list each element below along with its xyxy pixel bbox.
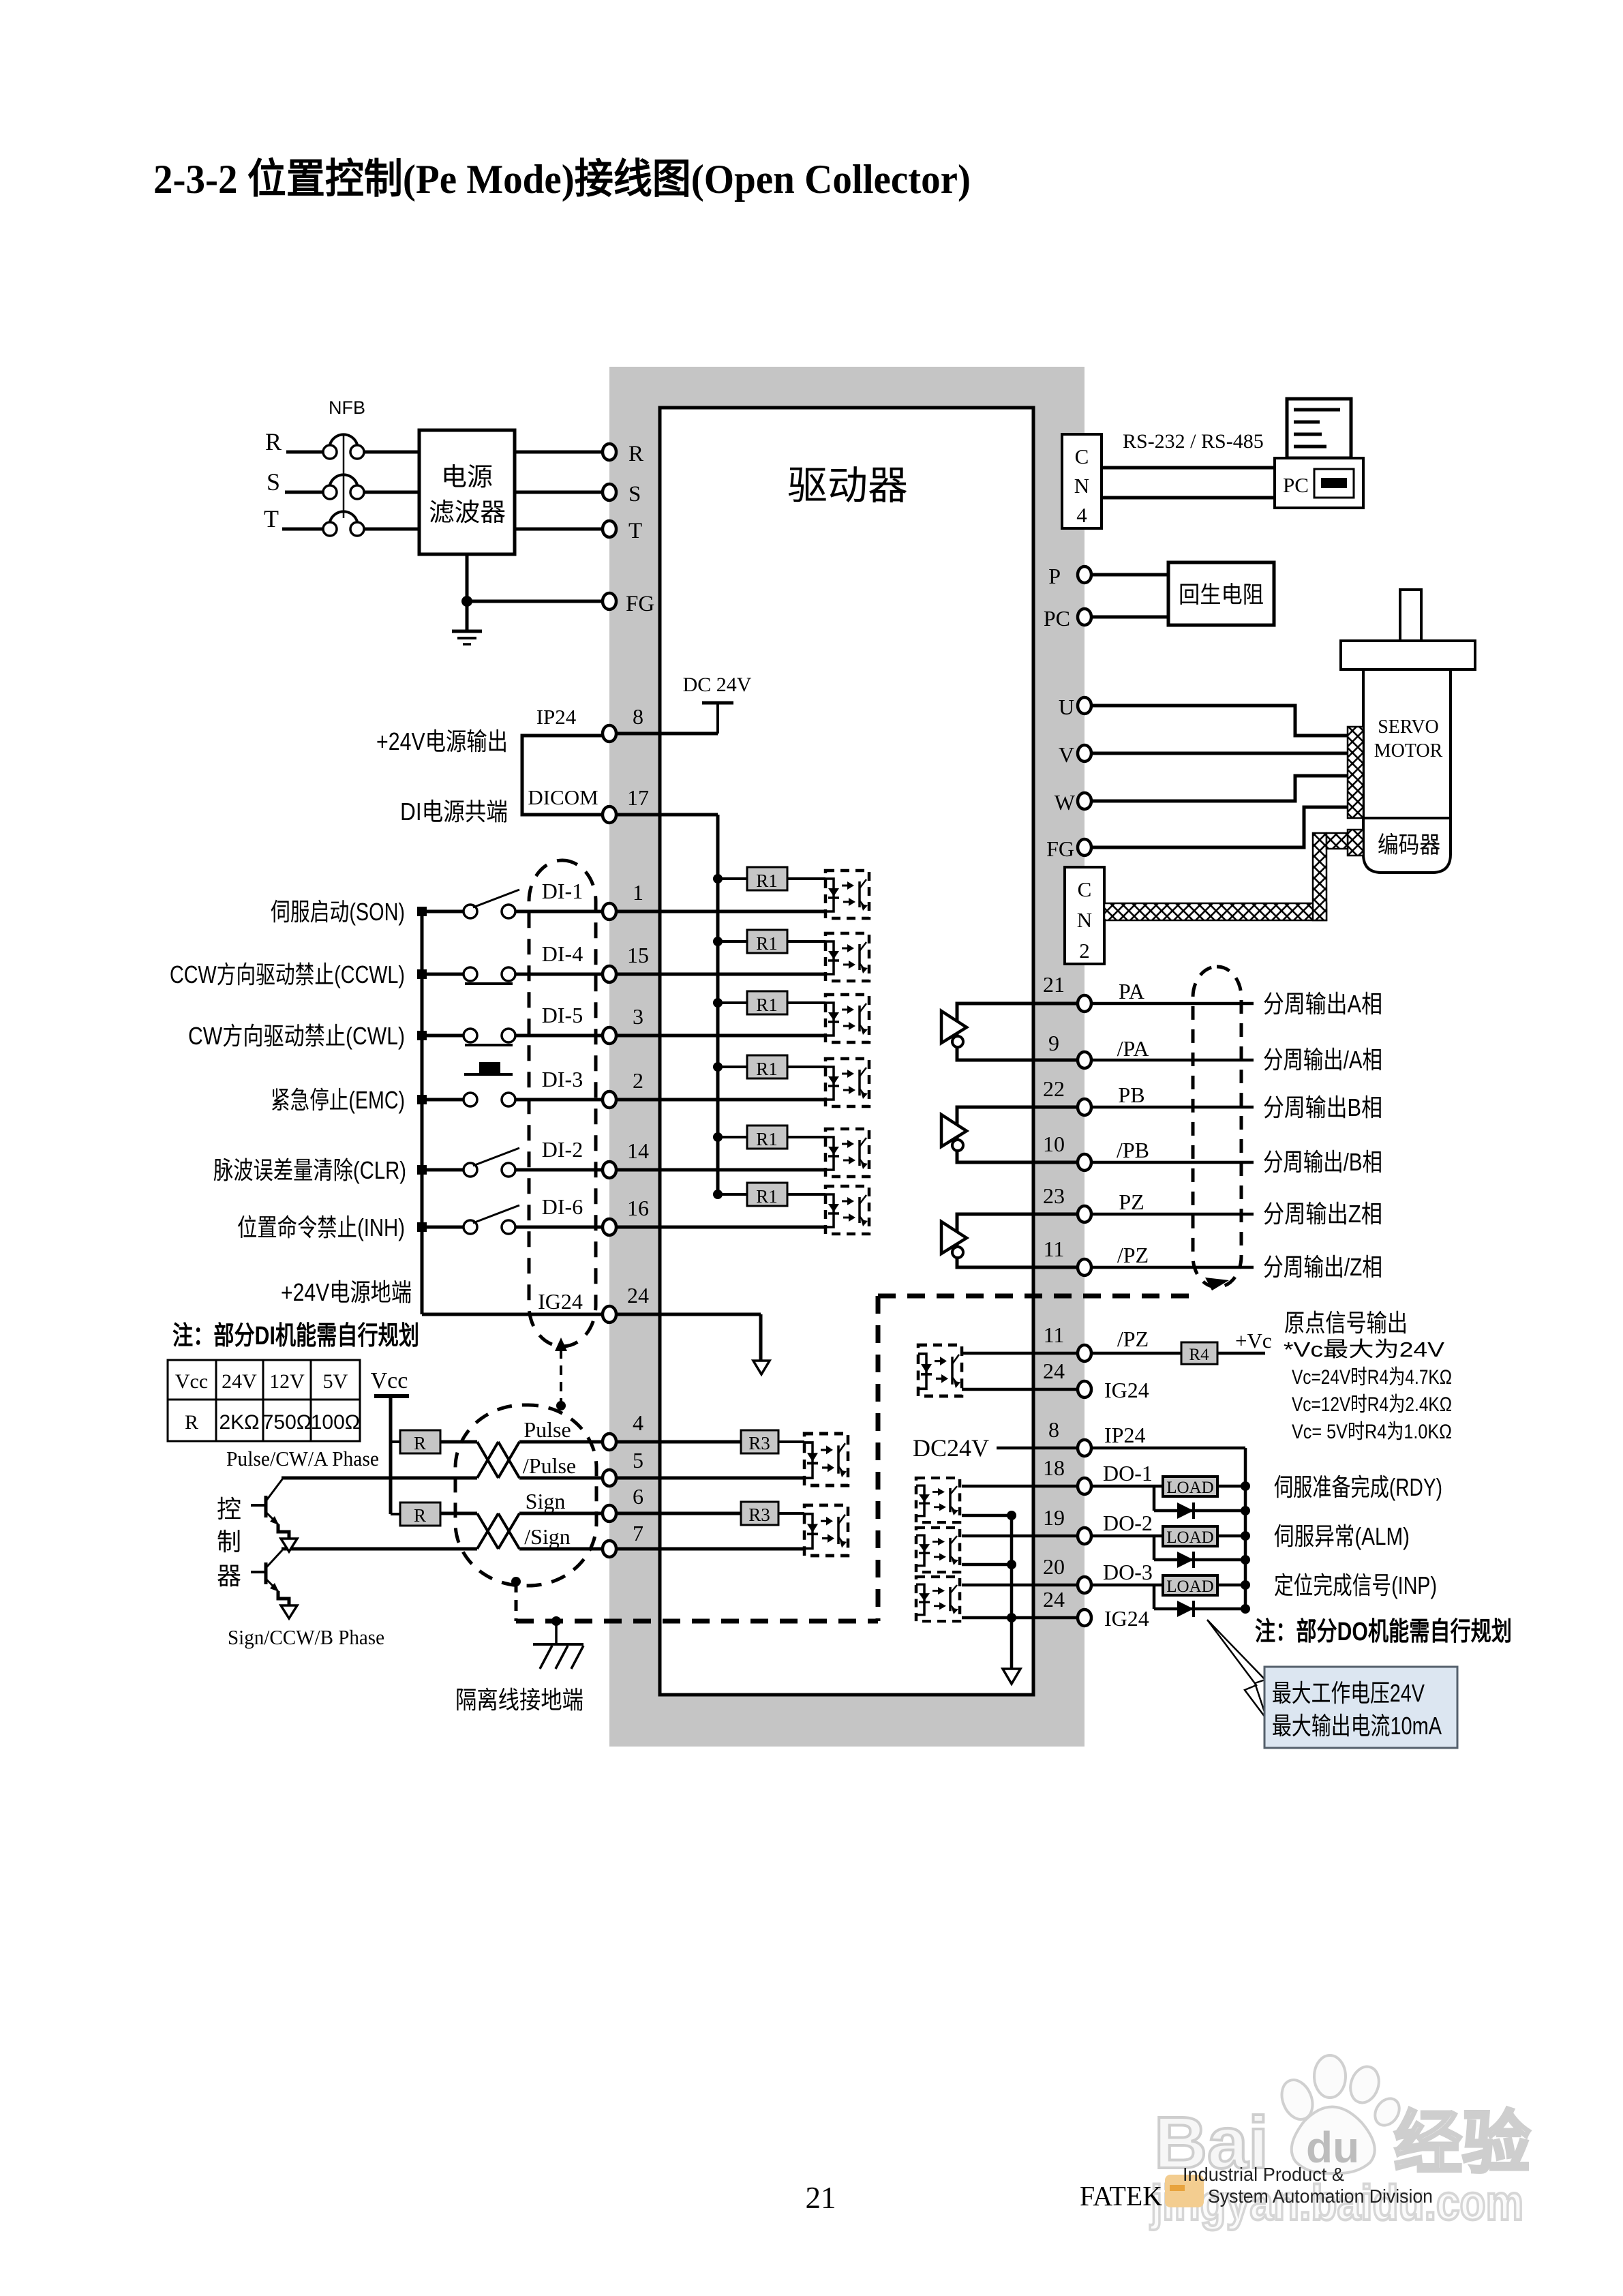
svg-text:750Ω: 750Ω [262,1411,312,1434]
svg-text:21: 21 [1043,972,1065,997]
terminal P [1078,567,1091,583]
svg-text:IG24: IG24 [1104,1378,1149,1402]
svg-text:+Vc: +Vc [1235,1329,1272,1353]
switch DI-5 (NC) [464,1029,477,1042]
svg-text:14: 14 [627,1138,649,1163]
optocoupler sign [804,1505,848,1556]
svg-text:注：部分DO机能需自行规划: 注：部分DO机能需自行规划 [1255,1618,1512,1646]
terminal 1 [603,903,616,920]
driver inner area [660,408,1033,1695]
svg-text:24: 24 [1043,1359,1065,1383]
svg-text:W: W [1055,790,1076,815]
R1 resistor row 2 [713,937,723,946]
svg-text:4: 4 [633,1410,643,1435]
svg-text:/PZ: /PZ [1117,1327,1149,1351]
servo motor body [1363,669,1451,818]
svg-text:Vcc: Vcc [371,1368,408,1393]
terminal 2 [603,1091,616,1108]
svg-text:11: 11 [1044,1237,1065,1261]
svg-text:+24V电源地端: +24V电源地端 [281,1278,412,1306]
shield arrow DI capsule to pulse capsule [560,1349,562,1404]
svg-text:注：部分DI机能需自行规划: 注：部分DI机能需自行规划 [172,1322,419,1350]
optocoupler DO-3 [916,1577,960,1621]
terminal 6 [603,1505,616,1522]
svg-text:伺服准备完成(RDY): 伺服准备完成(RDY) [1274,1473,1442,1501]
svg-text:T: T [628,519,642,543]
svg-text:MOTOR: MOTOR [1374,740,1443,761]
terminal 20 [1078,1577,1091,1593]
terminal PC [1078,609,1091,625]
connector CN2 [1065,867,1104,964]
shield dashed top run [878,1294,1198,1299]
wire R4 to +Vc [1217,1352,1265,1355]
svg-text:/Pulse: /Pulse [523,1453,576,1478]
svg-text:编码器: 编码器 [1378,832,1440,858]
wire CN4 to PC lower [1102,496,1275,500]
svg-text:16: 16 [627,1196,649,1220]
diode DO-1 [1153,1486,1156,1511]
svg-text:DI-3: DI-3 [542,1067,583,1091]
terminal 16 [603,1219,616,1235]
terminal 4 [603,1434,616,1450]
svg-text:R: R [265,428,282,455]
encoder output dashed capsule [1193,967,1241,1287]
svg-text:2: 2 [633,1068,643,1093]
svg-text:DC24V: DC24V [913,1434,989,1462]
line driver A [957,1003,1084,1060]
power filter box 电源滤波器 [419,430,515,554]
terminal FG [603,593,616,609]
svg-text:最大输出电流10mA: 最大输出电流10mA [1272,1712,1442,1740]
svg-text:V: V [1059,742,1074,767]
svg-text:DO-1: DO-1 [1103,1461,1153,1485]
switch DI-3 pushbutton [464,1093,477,1106]
connector CN4 [1062,434,1102,528]
svg-text:经验: 经验 [1394,2105,1530,2181]
svg-text:22: 22 [1043,1076,1065,1101]
svg-text:2KΩ: 2KΩ [219,1411,259,1434]
svg-text:C: C [1075,444,1089,468]
svg-text:100Ω: 100Ω [311,1411,360,1434]
svg-text:定位完成信号(INP): 定位完成信号(INP) [1274,1571,1437,1599]
junction to isolation ground [551,1616,561,1626]
opto DO-2 return [962,1563,1012,1567]
R1 resistor row 1 [713,874,723,883]
wire PZ out [1091,1213,1254,1216]
twisted pair Sign [477,1513,519,1549]
wire IG24 drop inside driver [759,1314,763,1361]
wire filter to S terminal [515,491,609,494]
PC monitor [1287,399,1351,458]
svg-text:Sign/CCW/B Phase: Sign/CCW/B Phase [228,1625,384,1649]
svg-text:PA: PA [1119,979,1144,1003]
svg-text:伺服异常(ALM): 伺服异常(ALM) [1274,1522,1410,1550]
R3 resistor (pulse) [741,1430,778,1453]
svg-text:4: 4 [1076,503,1087,527]
svg-text:NFB: NFB [329,397,365,418]
driver body (gray frame) [609,367,1084,1747]
svg-text:制: 制 [217,1528,241,1556]
svg-text:C: C [1078,877,1092,901]
svg-text:R: R [414,1433,426,1453]
wire CN4 to PC upper [1102,466,1275,470]
junction FG [461,596,472,607]
wire IG24 bottom [962,1616,1084,1620]
svg-text:电源: 电源 [441,463,493,491]
svg-text:分周输出A相: 分周输出A相 [1263,990,1382,1018]
wire PB out [1091,1106,1254,1109]
svg-text:FG: FG [626,592,654,616]
svg-text:18: 18 [1043,1455,1065,1480]
svg-text:3: 3 [633,1004,643,1029]
svg-text:System Automation Division: System Automation Division [1208,2186,1433,2207]
terminal 18 [1078,1478,1091,1494]
wire pin8 to DC24V tap [609,732,718,736]
shield dashed left edge [876,1296,881,1621]
wire /PZ pin11 [962,1352,1181,1355]
svg-text:DI-6: DI-6 [542,1194,583,1219]
open arrow to 0V [753,1361,770,1374]
encoder housing 编码器 [1363,818,1451,873]
terminal 17 [603,806,616,823]
svg-text:DO-3: DO-3 [1103,1560,1153,1584]
table Vcc/R [168,1360,360,1441]
svg-text:紧急停止(EMC): 紧急停止(EMC) [271,1086,405,1114]
DI dashed capsule [529,860,596,1346]
wire DO-1 [962,1485,1163,1488]
svg-text:CW方向驱动禁止(CWL): CW方向驱动禁止(CWL) [188,1022,405,1050]
terminal R [603,444,616,460]
svg-text:Sign: Sign [526,1489,566,1513]
svg-text:1: 1 [633,880,643,905]
twisted pair Pulse [477,1442,519,1478]
transistor Q1 [251,1504,266,1507]
svg-text:8: 8 [633,704,643,729]
wire down to ground [466,601,469,631]
terminal S [603,484,616,500]
svg-text:RS-232 / RS-485: RS-232 / RS-485 [1123,430,1264,453]
svg-text:原点信号输出: 原点信号输出 [1284,1309,1408,1337]
svg-text:驱动器: 驱动器 [787,464,908,508]
terminal W [1078,793,1091,809]
svg-text:LOAD: LOAD [1166,1577,1213,1596]
svg-text:分周输出/A相: 分周输出/A相 [1263,1046,1382,1074]
switch DI-4 (NC) [464,967,477,981]
terminal 22 [1078,1099,1091,1115]
R1 resistor row 3 [713,998,723,1008]
svg-text:R1: R1 [756,1129,778,1149]
wire DO-3 [962,1584,1163,1587]
line driver B [957,1107,1084,1162]
svg-text:+24V电源输出: +24V电源输出 [376,727,508,755]
svg-text:器: 器 [217,1562,241,1590]
PC box [1275,458,1363,508]
wire PC to regen resistor [1091,616,1168,619]
svg-text:R3: R3 [748,1433,770,1453]
svg-text:17: 17 [627,785,649,810]
svg-text:N: N [1077,908,1092,932]
svg-text:10: 10 [1043,1132,1065,1156]
svg-text:2-3-2 位置控制(Pe Mode)接线图(Open C: 2-3-2 位置控制(Pe Mode)接线图(Open Collector) [153,157,971,202]
terminal 8 [603,725,616,742]
DI input bus [421,911,424,1314]
svg-text:Vc=24V时R4为4.7KΩ: Vc=24V时R4为4.7KΩ [1292,1366,1452,1389]
load DO-2 [1163,1526,1217,1546]
wire DC24V to IP24 and rail [997,1447,1245,1450]
servo motor flange [1341,641,1475,669]
svg-text:滤波器: 滤波器 [429,498,506,526]
svg-text:P: P [1048,564,1061,588]
svg-text:分周输出/B相: 分周输出/B相 [1263,1148,1382,1176]
breaker linkage [343,434,345,518]
svg-text:R1: R1 [756,1186,778,1207]
terminal 23 [1078,1206,1091,1222]
wire S to NFB [285,491,323,494]
svg-text:24V: 24V [222,1370,257,1393]
wire U [1091,706,1348,736]
svg-text:控: 控 [217,1495,241,1523]
svg-text:9: 9 [1048,1031,1059,1055]
svg-text:DI电源共端: DI电源共端 [400,798,508,826]
terminal 19 [1078,1528,1091,1544]
wire /PZ out [1091,1266,1254,1269]
svg-text:SERVO: SERVO [1378,716,1439,738]
wire NFB-T to filter [364,528,419,531]
DO common rail [1010,1515,1014,1669]
svg-text:T: T [264,505,279,532]
DO supply rail [1244,1448,1247,1609]
terminal 24 (home) [1078,1381,1091,1398]
svg-text:Vc=12V时R4为2.4KΩ: Vc=12V时R4为2.4KΩ [1292,1393,1452,1416]
R1 resistor row 5 [713,1132,723,1142]
terminal 3 [603,1027,616,1044]
svg-text:S: S [267,468,280,496]
svg-text:DO-2: DO-2 [1103,1511,1153,1535]
svg-text:R: R [185,1411,198,1434]
breaker NFB pole T [330,511,357,522]
svg-text:分周输出B相: 分周输出B相 [1263,1093,1382,1121]
svg-text:21: 21 [806,2181,836,2215]
encoder cable (hatched) vertical [1313,833,1326,920]
wire FG to encoder shield [1091,807,1348,847]
wire R to NFB [286,451,323,454]
svg-text:IP24: IP24 [1104,1423,1145,1447]
switch DI-2 [464,1163,477,1177]
pull-up resistor R (pulse) [391,1440,400,1443]
svg-text:8: 8 [1048,1417,1059,1442]
terminal V [1078,745,1091,761]
svg-text:15: 15 [627,943,649,967]
svg-text:最大工作电压24V: 最大工作电压24V [1272,1679,1425,1707]
svg-text:*Vc最大为24V: *Vc最大为24V [1284,1338,1444,1361]
DICOM rail [716,815,720,1194]
wire V [1091,752,1348,755]
R1 resistor row 6 [713,1190,723,1199]
svg-text:回生电阻: 回生电阻 [1179,582,1264,608]
svg-text:R1: R1 [756,871,778,891]
terminal 10 [1078,1154,1091,1170]
svg-text:PZ: PZ [1119,1190,1144,1214]
svg-text:/PA: /PA [1117,1036,1149,1061]
wire NFB-S to filter [364,491,419,494]
svg-text:R3: R3 [748,1505,770,1525]
optocoupler /PZ output [918,1345,962,1396]
terminal 11 (home) [1078,1345,1091,1361]
callout box [1264,1667,1457,1748]
servo motor shaft [1400,590,1421,641]
svg-text:位置命令禁止(INH): 位置命令禁止(INH) [237,1213,405,1241]
shield junction below pulse capsule [511,1577,521,1586]
terminal 14 [603,1162,616,1178]
wire PA out [1091,1002,1254,1006]
svg-text:/PZ: /PZ [1117,1243,1149,1267]
optocoupler DI-6 [825,1186,869,1234]
load DO-3 [1163,1575,1217,1595]
optocoupler pulse [804,1434,848,1485]
wire DO-2 [962,1535,1163,1538]
svg-text:Pulse/CW/A Phase: Pulse/CW/A Phase [226,1447,379,1470]
svg-text:5: 5 [633,1448,643,1472]
optocoupler DI-2 [825,1129,869,1177]
wire NFB-R to filter [364,451,419,454]
wire to FG terminal [467,600,609,603]
wire IG24 [422,1313,761,1316]
motor power connector (hatched) [1348,727,1363,818]
optocoupler DI-1 [825,871,869,918]
svg-text:DC 24V: DC 24V [683,674,752,696]
encoder connector (hatched) [1348,830,1363,856]
svg-text:19: 19 [1043,1505,1065,1530]
svg-text:LOAD: LOAD [1166,1479,1213,1497]
svg-text:R1: R1 [756,995,778,1015]
wire /PA out [1091,1059,1254,1062]
terminal 11 [1078,1259,1091,1275]
capsule shield arrow [1205,1278,1229,1290]
svg-text:隔离线接地端: 隔离线接地端 [455,1686,583,1714]
svg-text:R: R [414,1505,426,1526]
svg-text:Pulse: Pulse [524,1417,571,1442]
breaker NFB pole R [330,434,357,444]
isolation ground symbol [533,1643,583,1646]
svg-text:FG: FG [1046,836,1074,861]
svg-text:FATEK: FATEK [1080,2180,1162,2211]
svg-text:脉波误差量清除(CLR): 脉波误差量清除(CLR) [213,1156,406,1184]
svg-text:24: 24 [627,1283,649,1308]
svg-text:DI-4: DI-4 [542,941,583,966]
svg-text:2: 2 [1079,939,1090,963]
terminal 7 [603,1541,616,1557]
svg-text:N: N [1074,474,1089,498]
svg-text:PC: PC [1044,606,1070,631]
svg-text:DI-1: DI-1 [542,879,583,903]
terminal 21 [1078,995,1091,1012]
R1 resistor row 4 [713,1062,723,1072]
terminal 9 [1078,1052,1091,1068]
svg-text:CCW方向驱动禁止(CCWL): CCW方向驱动禁止(CCWL) [170,961,405,988]
svg-text:分周输出Z相: 分周输出Z相 [1263,1200,1382,1228]
svg-text:DI-5: DI-5 [542,1003,583,1027]
terminal 15 [603,966,616,982]
baidu watermark [1149,2055,1530,2231]
load DO-1 [1163,1477,1217,1496]
svg-text:伺服启动(SON): 伺服启动(SON) [271,898,405,926]
optocoupler DO-1 [916,1478,960,1522]
wire filter to R terminal [515,451,609,454]
terminal FG(right) [1078,839,1091,856]
svg-text:/Sign: /Sign [524,1524,571,1549]
opto DO-1 return [962,1514,1012,1517]
svg-text:R4: R4 [1189,1346,1209,1364]
line driver Z [957,1214,1084,1267]
svg-text:U: U [1059,695,1074,719]
wire IP24 external loop [522,736,609,815]
svg-text:DI-2: DI-2 [542,1137,583,1162]
svg-text:S: S [628,482,641,507]
svg-text:6: 6 [633,1484,643,1509]
resistor R4 [1181,1342,1217,1364]
open arrow DO common [1003,1669,1020,1684]
svg-text:LOAD: LOAD [1166,1528,1213,1547]
diode DO-2 [1153,1536,1156,1560]
svg-text:Vcc: Vcc [175,1370,208,1393]
svg-text:IG24: IG24 [1104,1606,1149,1631]
svg-text:R: R [628,442,643,466]
svg-text:24: 24 [1043,1587,1065,1612]
switch DI-6 [464,1220,477,1234]
svg-text:5V: 5V [323,1370,348,1393]
wire P to regen resistor [1091,573,1168,577]
wire T to NFB [282,528,323,531]
svg-text:PC: PC [1283,473,1309,497]
optocoupler DI-4 [825,933,869,981]
pull-up resistor R (sign) [391,1513,400,1515]
shield dashed bottom run [516,1619,878,1624]
svg-text:R1: R1 [756,1059,778,1079]
R3 resistor (sign) [741,1502,778,1525]
wire IG24 (home) [962,1388,1084,1391]
svg-text:23: 23 [1043,1183,1065,1208]
svg-text:11: 11 [1044,1323,1065,1347]
transistor Q2 [251,1571,266,1573]
callout pointer [1207,1620,1267,1720]
svg-text:DICOM: DICOM [528,785,598,809]
FATEK logo mark [1165,2175,1204,2207]
svg-text:12V: 12V [269,1370,305,1393]
terminal 24 (bottom) [1078,1610,1091,1626]
optocoupler DO-2 [916,1528,960,1572]
svg-text:分周输出/Z相: 分周输出/Z相 [1263,1253,1382,1281]
wire pin17 DICOM into box [609,813,718,817]
terminal U [1078,697,1091,714]
svg-text:PB: PB [1118,1083,1144,1107]
ground symbol [452,630,482,633]
svg-text:R1: R1 [756,933,778,954]
svg-text:Vc= 5V时R4为1.0KΩ: Vc= 5V时R4为1.0KΩ [1292,1421,1452,1443]
wire filter to T terminal [515,528,609,531]
terminal T [603,521,616,537]
terminal 8 (right) [1078,1440,1091,1456]
wire W [1091,776,1348,801]
wire /Pulse [282,1477,477,1480]
terminal 24 [603,1306,616,1323]
switch DI-1 [464,905,477,918]
encoder cable (hatched) link [1326,833,1348,849]
wire Sign [440,1512,477,1515]
regen resistor box 回生电阻 [1168,562,1274,625]
breaker NFB pole S [330,474,357,485]
svg-text:IP24: IP24 [536,705,577,729]
pulse dashed capsule [455,1405,596,1586]
